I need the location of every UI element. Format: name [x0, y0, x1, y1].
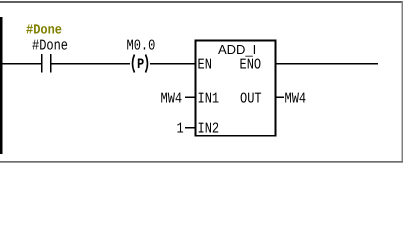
svg-text:M0.0: M0.0 [127, 37, 156, 55]
svg-text:ADD_I: ADD_I [218, 42, 256, 57]
svg-text:MW4: MW4 [161, 90, 183, 108]
svg-text:#Done: #Done [26, 22, 62, 38]
svg-text:P: P [137, 56, 144, 73]
svg-text:ENO: ENO [240, 56, 262, 74]
svg-text:MW4: MW4 [285, 90, 307, 108]
svg-text:IN1: IN1 [198, 90, 220, 108]
svg-text:IN2: IN2 [198, 120, 220, 138]
svg-text:OUT: OUT [240, 90, 262, 108]
svg-text:#Done: #Done [32, 37, 68, 55]
svg-text:EN: EN [198, 56, 212, 74]
svg-text:1: 1 [177, 120, 184, 138]
